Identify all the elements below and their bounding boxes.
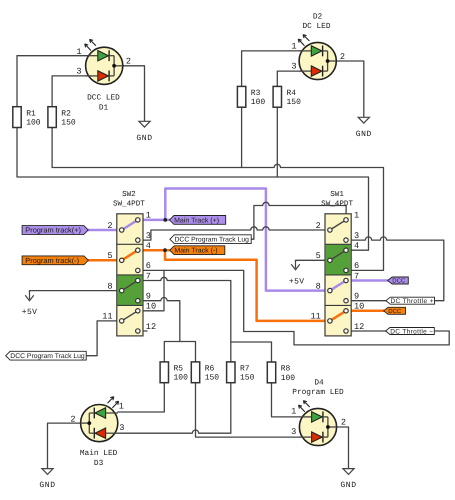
svg-text:150: 150	[205, 374, 220, 383]
wire SW2 pin10 crossover to pin6	[138, 270, 164, 310]
svg-text:R3: R3	[251, 89, 261, 98]
svg-text:Program LED: Program LED	[292, 388, 344, 397]
svg-text:1: 1	[354, 211, 359, 221]
resistor R7	[227, 362, 235, 383]
svg-text:1: 1	[146, 211, 151, 221]
svg-text:3: 3	[354, 231, 359, 241]
junction Main Track(-)	[163, 248, 167, 252]
svg-text:DC LED: DC LED	[302, 22, 330, 31]
svg-text:5: 5	[107, 251, 112, 261]
svg-text:9: 9	[146, 292, 151, 302]
wire R6 to D4 pin3	[196, 382, 300, 437]
power +5V SW1	[295, 260, 297, 268]
svg-text:GND: GND	[356, 130, 372, 139]
svg-text:DCC: DCC	[388, 308, 402, 315]
svg-text:2: 2	[316, 221, 321, 231]
svg-text:R7: R7	[240, 365, 250, 374]
svg-text:SW2: SW2	[122, 190, 136, 199]
switch SW1 4PDT	[325, 214, 351, 336]
ground GND D1	[139, 121, 150, 127]
svg-text:+5V: +5V	[289, 278, 305, 287]
LED D2 bicolor	[298, 35, 336, 80]
svg-text:R1: R1	[26, 109, 36, 118]
svg-text:4: 4	[354, 241, 359, 251]
svg-text:3: 3	[291, 427, 296, 437]
resistor R6	[191, 362, 199, 383]
wire D4 pin2 to GND	[337, 427, 349, 469]
svg-text:7: 7	[146, 271, 151, 281]
wire R5 to D3 pin1	[118, 382, 164, 412]
svg-text:2: 2	[340, 52, 345, 62]
svg-text:GND: GND	[340, 481, 356, 490]
svg-text:2: 2	[107, 221, 112, 231]
ground GND D4	[343, 469, 354, 475]
ground GND D3	[42, 469, 53, 475]
svg-text:7: 7	[354, 271, 359, 281]
svg-text:Program track(+): Program track(+)	[25, 226, 81, 235]
junction Main Track(+)	[163, 218, 167, 222]
svg-text:DCC: DCC	[392, 278, 406, 285]
svg-text:150: 150	[287, 98, 302, 107]
wire D2 pin2 to GND	[328, 61, 364, 117]
net label DCC orange	[384, 307, 406, 314]
svg-text:100: 100	[251, 98, 266, 107]
wire SW1 pin9 to DC Throttle + label	[346, 300, 386, 302]
svg-text:1: 1	[291, 42, 296, 52]
svg-text:D2: D2	[313, 12, 323, 21]
wire D1 pin1 to R1	[17, 56, 98, 107]
wire SW1 pin7 to DCC label	[346, 279, 388, 282]
net label DC Throttle +	[386, 297, 435, 304]
svg-text:2: 2	[341, 418, 346, 428]
svg-text:3: 3	[291, 62, 296, 72]
LED D4 bicolor	[299, 401, 337, 446]
svg-text:DC Throttle +: DC Throttle +	[391, 298, 434, 305]
svg-text:D3: D3	[94, 459, 104, 468]
net label Main Track (+)	[170, 216, 226, 225]
net label Program track(+)	[22, 226, 88, 235]
wire SW1 pin3 to DC Throttle +	[346, 237, 444, 301]
svg-text:R6: R6	[205, 365, 215, 374]
resistor R8	[267, 362, 275, 383]
power +5V SW2	[29, 291, 31, 300]
wire D3 pin2 to GND	[48, 423, 81, 469]
svg-text:2: 2	[126, 57, 131, 67]
svg-text:2: 2	[70, 414, 75, 424]
wire D1 pin3 to R2	[52, 76, 98, 107]
svg-text:R5: R5	[174, 365, 184, 374]
resistor R5	[160, 362, 168, 383]
net label DCC purple	[388, 277, 409, 284]
switch SW2 4PDT	[117, 214, 143, 336]
wire SW2 pin6 to DC Throttle -	[138, 270, 449, 345]
svg-text:150: 150	[61, 119, 76, 128]
svg-text:3: 3	[76, 67, 81, 77]
wire SW2 pin12 stub	[138, 330, 147, 332]
svg-text:150: 150	[240, 374, 255, 383]
svg-text:100: 100	[174, 374, 189, 383]
svg-text:6: 6	[146, 261, 151, 271]
wire D2 pin3 to R4	[277, 71, 311, 107]
svg-text:DCC LED: DCC LED	[87, 94, 120, 103]
wire SW1 pin10 to DCC label	[346, 310, 384, 313]
wire R4 to net B	[276, 107, 278, 177]
LED D1 bicolor	[85, 39, 123, 84]
svg-text:SW_4PDT: SW_4PDT	[321, 200, 353, 209]
svg-text:DCC Program Track Lug: DCC Program Track Lug	[175, 237, 250, 244]
resistor R2	[48, 107, 56, 128]
net label DCC Program Track Lug lower	[6, 351, 87, 360]
svg-text:D4: D4	[314, 378, 324, 387]
svg-text:3: 3	[119, 423, 124, 433]
svg-text:10: 10	[354, 302, 364, 312]
svg-text:Main Track (-): Main Track (-)	[174, 247, 217, 255]
svg-text:GND: GND	[39, 481, 55, 490]
wire Main Track(+) riser to SW1 pin8	[165, 189, 330, 291]
wire SW2 pin3 to SW1 pin2	[138, 227, 330, 240]
svg-text:1: 1	[291, 407, 296, 417]
resistor R4	[273, 86, 281, 107]
wire D3 pin3 to R7	[118, 382, 231, 433]
svg-text:+5V: +5V	[22, 308, 38, 317]
svg-text:R8: R8	[281, 365, 291, 374]
svg-text:100: 100	[26, 119, 41, 128]
svg-text:11: 11	[102, 312, 112, 322]
wire SW2 pin7 to R7	[138, 277, 231, 362]
svg-text:Main LED: Main LED	[80, 449, 118, 458]
wire SW1 pin1 to DCC Program Track Lug	[251, 202, 346, 239]
net label DCC Program Track Lug upper	[170, 235, 251, 244]
wire D2 pin1 to R3	[242, 51, 312, 107]
wire R7 branch to R8	[231, 342, 272, 362]
wire Main Track(+) SW2 pin1 to label	[138, 219, 170, 222]
svg-text:11: 11	[310, 312, 320, 322]
svg-text:4: 4	[146, 241, 151, 251]
svg-text:SW_4PDT: SW_4PDT	[113, 200, 145, 209]
svg-text:D1: D1	[99, 103, 109, 112]
wire R8 to D4 pin1	[272, 383, 300, 417]
svg-text:100: 100	[281, 374, 296, 383]
wire R3 to net A	[241, 107, 243, 167]
ground GND D2	[358, 117, 369, 123]
wire Main Track(-) SW2 pin4 to label	[138, 249, 171, 252]
wire SW1 pin12 to DC Throttle - label	[346, 330, 386, 332]
wire D1 pin2 to GND	[114, 66, 144, 122]
wire Program track(+) to SW2 pin2	[88, 229, 122, 232]
resistor R3	[237, 86, 245, 107]
wire R5 R6 tie	[164, 342, 195, 362]
svg-text:1: 1	[76, 47, 81, 57]
wire Main Track(-) drop to SW1 pin11	[165, 250, 330, 321]
svg-text:GND: GND	[136, 134, 152, 143]
svg-text:1: 1	[119, 402, 124, 412]
net label Main Track (-)	[170, 246, 225, 255]
net label DC Throttle -	[386, 328, 435, 335]
wire R2 to SW1 pin6 (net A)	[52, 128, 383, 271]
svg-text:DCC Program Track Lug: DCC Program Track Lug	[10, 353, 85, 360]
wire Program track(-) to SW2 pin5	[88, 259, 121, 262]
wire SW1 pin5 to +5V	[296, 260, 331, 261]
wire R1 to SW1 pin4 (net B)	[17, 128, 369, 251]
svg-text:12: 12	[354, 322, 364, 332]
svg-text:SW1: SW1	[330, 190, 344, 199]
net label Program track(-)	[22, 256, 88, 265]
wire SW2 pin8 to +5V	[30, 291, 122, 292]
svg-text:Program track(-): Program track(-)	[25, 256, 79, 265]
LED D3 bicolor mirrored	[81, 397, 119, 442]
svg-text:6: 6	[354, 261, 359, 271]
svg-text:3: 3	[146, 231, 151, 241]
svg-text:12: 12	[146, 322, 156, 332]
wire SW2 pin11 to lug label	[86, 321, 122, 356]
svg-text:8: 8	[316, 281, 321, 291]
svg-text:Main Track (+): Main Track (+)	[174, 216, 219, 224]
svg-text:10: 10	[146, 302, 156, 312]
svg-text:R2: R2	[61, 109, 71, 118]
svg-text:DC Throttle −: DC Throttle −	[390, 328, 433, 335]
wire SW2 pin9 to R5 R6	[138, 298, 180, 342]
svg-text:R4: R4	[287, 89, 297, 98]
svg-text:9: 9	[354, 292, 359, 302]
svg-text:8: 8	[107, 281, 112, 291]
resistor R1	[13, 107, 21, 128]
svg-text:5: 5	[316, 251, 321, 261]
